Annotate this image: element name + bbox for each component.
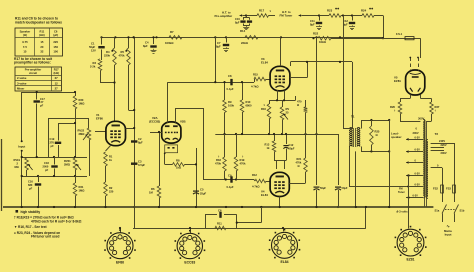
svg-text:Ω: Ω (298, 164, 300, 168)
svg-text:C11: C11 (310, 19, 315, 23)
svg-text:T2: T2 (435, 132, 439, 136)
capacitor C11 (318, 14, 320, 16)
svg-text:470: 470 (297, 100, 302, 104)
svg-text:FS3: FS3 (446, 187, 451, 191)
svg-text:FS2: FS2 (433, 187, 438, 191)
svg-text:6·3V: 6·3V (413, 195, 419, 198)
svg-text:15: 15 (23, 50, 27, 54)
svg-text:RV22: RV22 (78, 129, 85, 133)
svg-text:C6: C6 (218, 209, 222, 213)
wire T1 primary (351, 128, 353, 129)
capacitor C14 electrolytic (335, 186, 341, 188)
svg-text:R21: R21 (79, 185, 84, 189)
resistor R19 (236, 134, 238, 157)
svg-text:100kΩ: 100kΩ (165, 41, 174, 45)
resistor R25 (370, 126, 374, 145)
svg-text:EL84: EL84 (280, 260, 288, 264)
resistor R26 (398, 102, 402, 114)
svg-text:220k: 220k (104, 54, 110, 58)
svg-text:(Ω): (Ω) (23, 33, 27, 37)
resistor R14 (245, 36, 258, 40)
socket ECC83 base (177, 233, 202, 258)
svg-text:150: 150 (53, 45, 58, 49)
svg-text:R17: R17 (259, 9, 265, 13)
left page edge (1, 139, 3, 211)
resistor R17 (257, 14, 269, 18)
capacitor C19 (55, 141, 61, 143)
svg-text:220: 220 (109, 190, 114, 194)
svg-text:3·75: 3·75 (22, 40, 28, 44)
svg-text:FM tuner unit used: FM tuner unit used (31, 235, 60, 239)
socket EL84 base (272, 232, 298, 258)
svg-text:R1: R1 (109, 155, 113, 159)
capacitor C12 (352, 16, 354, 21)
wire T1 secondary top (361, 120, 389, 122)
svg-text:10kΩ: 10kΩ (319, 40, 327, 44)
resistor R5 (128, 37, 130, 48)
svg-text:C7: C7 (217, 41, 221, 45)
resistor R20b (305, 100, 307, 107)
svg-text:R13: R13 (265, 143, 270, 147)
V4 cathode bypass C12e (286, 134, 288, 144)
svg-text:20: 20 (40, 45, 44, 49)
V2 base box (165, 145, 178, 153)
wire coupling top (215, 37, 217, 82)
svg-text:(ECC83): (ECC83) (149, 120, 160, 124)
svg-text:R18: R18 (216, 158, 221, 162)
svg-text:470kΩ each for R out= 6 or 8·8: 470kΩ each for R out= 6 or 8·8kΩ (31, 219, 82, 223)
capacitor C5 (193, 190, 199, 192)
wire V4 cathode (279, 197, 281, 208)
svg-text:EF86: EF86 (96, 117, 103, 121)
table: speaker matching (R11/C6) (15, 28, 63, 56)
svg-text:0·1µF: 0·1µF (227, 87, 234, 91)
capacitor C13 electrolytic (314, 186, 320, 188)
fuse FS2 (441, 185, 444, 193)
resistor R4 (114, 37, 116, 48)
capacitor C9 (230, 176, 232, 182)
svg-text:6·3V: 6·3V (415, 136, 421, 139)
potentiometer RV21 (73, 158, 77, 170)
svg-text:6·3V: 6·3V (415, 184, 421, 187)
svg-text:R12: R12 (252, 173, 257, 177)
capacitor C1 (101, 37, 103, 44)
loudspeaker (389, 120, 391, 151)
resistor R20 (75, 92, 77, 96)
svg-text:2·2k: 2·2k (90, 65, 96, 69)
wire (341, 15, 362, 17)
svg-text:R11: R11 (40, 29, 45, 33)
svg-text:8µF: 8µF (138, 141, 143, 145)
svg-text:R7: R7 (170, 30, 174, 34)
svg-text:ECC83: ECC83 (184, 260, 195, 264)
svg-text:680: 680 (28, 183, 33, 187)
socket stub ECC83 (190, 228, 192, 233)
svg-text:EZ81: EZ81 (406, 258, 414, 262)
switch link (445, 209, 456, 211)
svg-text:Speaker: Speaker (20, 29, 30, 33)
svg-text:220V: 220V (441, 143, 447, 147)
svg-text:R3: R3 (93, 61, 97, 65)
svg-text:R16: R16 (261, 107, 266, 111)
wire T2 HV ends (400, 121, 420, 123)
svg-text:RV19: RV19 (14, 158, 21, 162)
svg-text:T1: T1 (351, 115, 355, 119)
svg-text:6·3V: 6·3V (415, 149, 421, 152)
resistor R6 grid leak (159, 132, 161, 186)
svg-text:pF: pF (40, 103, 44, 107)
resistor R9 (224, 82, 226, 100)
socket EF86 base (107, 233, 133, 259)
svg-text:Input: Input (18, 145, 25, 149)
svg-text:pF: pF (29, 186, 33, 190)
svg-text:C5: C5 (200, 188, 204, 192)
svg-text:R17: R17 (54, 67, 59, 71)
svg-text:V2B: V2B (180, 120, 186, 124)
svg-text:EL84: EL84 (261, 61, 268, 65)
svg-text:EF86: EF86 (116, 260, 124, 264)
wire tone box outer (49, 118, 89, 120)
svg-text:RV21: RV21 (64, 159, 71, 163)
svg-text:240V: 240V (439, 139, 445, 143)
wire V4 anode (289, 183, 305, 185)
potentiometer RV (282, 100, 284, 107)
switch S1b (454, 205, 459, 214)
capacitor C4 (153, 37, 155, 44)
svg-text:EZ81: EZ81 (394, 79, 401, 83)
wire EZ81 anode stubs (410, 58, 412, 62)
svg-text:C19: C19 (50, 137, 55, 141)
wire EZ81 left leg (410, 95, 412, 99)
svg-text:preamplifier as follows:: preamplifier as follows: (14, 61, 51, 65)
notes: component footnotes (16, 210, 19, 213)
resistor R24 (362, 14, 374, 18)
svg-text:27: 27 (55, 76, 59, 80)
svg-text:3-valve: 3-valve (17, 81, 27, 85)
svg-text:1MΩ: 1MΩ (79, 189, 86, 193)
resistor R27 (430, 102, 434, 114)
svg-text:50µF: 50µF (320, 186, 326, 190)
svg-text:C10: C10 (235, 17, 240, 21)
wire T1 center tap (343, 16, 345, 129)
svg-text:50µF: 50µF (289, 147, 295, 151)
svg-text:C16: C16 (28, 180, 33, 184)
svg-text:6·3V: 6·3V (415, 173, 421, 176)
svg-text:R15: R15 (253, 72, 258, 76)
resistor R8 (165, 164, 173, 166)
svg-text:C9: C9 (228, 174, 232, 178)
capacitor C17 (36, 92, 38, 100)
svg-text:R21: R21 (297, 157, 302, 161)
svg-text:C8: C8 (228, 74, 232, 78)
svg-text:100: 100 (53, 50, 58, 54)
svg-text:0·1µF: 0·1µF (227, 185, 234, 189)
svg-text:50µF: 50µF (342, 186, 348, 190)
svg-text:1MΩ: 1MΩ (79, 102, 86, 106)
svg-text:Pre-amplifier: Pre-amplifier (215, 14, 234, 18)
svg-text:MΩ: MΩ (15, 165, 19, 169)
wire (274, 160, 286, 162)
wire to EZ81 socket (408, 198, 410, 229)
svg-text:FM Tuner: FM Tuner (280, 14, 294, 18)
V1 cathode resistors R1 R2 (106, 145, 112, 151)
svg-text:8µF: 8µF (235, 20, 240, 24)
wire V1 screen line (134, 37, 136, 228)
wire (22, 92, 76, 94)
svg-text:470k: 470k (215, 162, 221, 166)
wire heater riser (365, 207, 367, 228)
svg-text:RV: RV (286, 107, 290, 111)
table: preamplifier R17 (15, 67, 62, 91)
svg-text:15: 15 (40, 40, 44, 44)
wire V2 grid (150, 132, 162, 134)
svg-text:4·7kΩ: 4·7kΩ (252, 185, 260, 189)
svg-text:R14: R14 (240, 29, 246, 33)
svg-text:R26: R26 (390, 105, 395, 109)
svg-text:pF: pF (45, 168, 49, 172)
capacitor C3 (131, 162, 137, 164)
capacitor C18 (54, 157, 56, 165)
svg-text:1kΩ: 1kΩ (176, 166, 182, 170)
svg-text:R24: R24 (361, 9, 367, 13)
wire EZ81 right leg (420, 95, 422, 99)
fuse FS3 (453, 185, 456, 193)
svg-text:R10: R10 (246, 100, 251, 104)
wire feedback to chassis (237, 222, 261, 224)
svg-text:25µF: 25µF (200, 191, 207, 195)
svg-text:R11: R11 (217, 222, 222, 226)
svg-text:R8: R8 (176, 159, 180, 163)
svg-text:50µF: 50µF (89, 45, 96, 49)
mains line 2 (454, 143, 456, 202)
wire (355, 151, 357, 207)
socket EZ81 base (397, 229, 424, 256)
svg-text:pF: pF (51, 144, 55, 148)
resistor R10 (242, 82, 244, 100)
svg-text:C3: C3 (138, 160, 142, 164)
svg-text:470k: 470k (119, 54, 125, 58)
svg-text:match loudspeaker as follows: match loudspeaker as follows (15, 20, 62, 24)
resistor R12 (254, 180, 255, 182)
wire cathode bus (215, 134, 338, 136)
capacitor C8 (230, 79, 232, 85)
heater line (133, 228, 366, 230)
resistor R22 (318, 36, 331, 40)
wire V2B anode box (175, 108, 177, 123)
svg-text:270: 270 (50, 141, 55, 145)
resistor R23 (329, 14, 341, 18)
svg-text:speaker: speaker (391, 135, 402, 139)
capacitor C16 (38, 176, 40, 182)
svg-text:R9: R9 (228, 100, 232, 104)
svg-text:12: 12 (55, 81, 59, 85)
svg-text:R20: R20 (79, 98, 84, 102)
svg-text:R23: R23 (327, 9, 333, 13)
resistor R21v (305, 134, 307, 158)
feedback network C6 R11 (205, 215, 207, 228)
svg-text:circuit: circuit (29, 71, 37, 75)
wire screen rail (291, 61, 353, 63)
svg-text:32: 32 (40, 50, 44, 54)
wire long vertical (316, 37, 318, 185)
wire (22, 157, 87, 159)
resistor R18 (224, 134, 226, 157)
chassis ground line (3, 206, 433, 208)
svg-text:▼ R16, R17 - See text: ▼ R16, R17 - See text (14, 225, 48, 229)
resistor R21 (75, 176, 77, 183)
V4 cathode bias R13 (274, 134, 276, 141)
svg-text:12V: 12V (91, 48, 96, 52)
svg-text:2MΩ: 2MΩ (79, 132, 86, 136)
wire T1 secondary bottom (361, 147, 363, 152)
switch S1a (442, 205, 447, 214)
svg-text:2000: 2000 (43, 164, 49, 168)
svg-text:300V: 300V (413, 131, 419, 135)
svg-text:27: 27 (55, 87, 59, 91)
svg-text:22kΩ: 22kΩ (241, 41, 249, 45)
svg-text:0·5µF: 0·5µF (138, 163, 145, 167)
T2 heater taps (406, 139, 409, 141)
mains line 1 (442, 168, 444, 202)
socket stub EL84 (283, 228, 285, 231)
wire V2A anode (167, 82, 169, 123)
wire coupling bottom (203, 179, 254, 181)
svg-text:C2: C2 (138, 137, 142, 141)
svg-text:470k: 470k (296, 161, 302, 165)
wire (196, 148, 198, 207)
wire (89, 140, 91, 176)
wire V3 screen (290, 77, 307, 79)
resistor R7 (169, 36, 182, 40)
svg-text:C18: C18 (44, 161, 49, 165)
svg-text:Pre-amplifier: Pre-amplifier (25, 67, 41, 71)
potentiometer RV22 (87, 128, 91, 140)
svg-text:25: 25 (286, 111, 289, 115)
svg-text:2-valve: 2-valve (17, 76, 27, 80)
svg-text:F.S.1: F.S.1 (396, 32, 403, 36)
svg-text:high stability: high stability (21, 210, 41, 214)
potentiometer RV19 (25, 158, 29, 170)
svg-text:R22: R22 (313, 31, 319, 35)
wire T1 to heater taps (349, 147, 351, 187)
wire (22, 176, 87, 178)
svg-text:C1: C1 (91, 42, 95, 46)
svg-text:Mixer: Mixer (17, 87, 25, 91)
svg-text:R19: R19 (240, 158, 245, 162)
input terminal (21, 92, 23, 141)
svg-text:2MΩ: 2MΩ (64, 163, 71, 167)
fuse FS1 (383, 38, 420, 40)
svg-text:EL84: EL84 (261, 193, 268, 197)
svg-text:R6: R6 (151, 187, 155, 191)
svg-text:7·5: 7·5 (23, 45, 27, 49)
wire (284, 91, 286, 101)
svg-text:(kΩ): (kΩ) (53, 71, 59, 75)
wire (338, 134, 340, 185)
capacitor C7 (226, 37, 228, 42)
svg-text:4·7kΩ: 4·7kΩ (251, 85, 259, 89)
wire EZ81 cathode (420, 38, 422, 58)
svg-text:▼: ▼ (263, 104, 265, 107)
wire (374, 15, 383, 17)
svg-text:S1b: S1b (460, 209, 465, 213)
svg-text:R5: R5 (121, 50, 125, 54)
svg-text:R27: R27 (435, 105, 440, 109)
svg-text:220: 220 (53, 40, 58, 44)
wire V3 anode top (280, 37, 282, 66)
svg-text:Input: Input (445, 232, 452, 236)
wire (269, 100, 296, 102)
resistor R16 (269, 100, 271, 104)
wire (352, 62, 354, 129)
resistor R15 (254, 79, 256, 82)
svg-text:R4: R4 (106, 50, 110, 54)
svg-text:C12: C12 (289, 143, 294, 147)
svg-text:S1a: S1a (435, 209, 440, 213)
capacitor C2 (131, 140, 137, 142)
svg-text:R25: R25 (375, 130, 380, 134)
wire V1 grid (95, 131, 106, 133)
svg-text:C6: C6 (54, 29, 58, 33)
resistor R3 (98, 59, 102, 71)
svg-text:Tuner: Tuner (398, 191, 405, 194)
svg-text:8µF: 8µF (310, 23, 315, 27)
wire tone box inner (58, 123, 75, 125)
svg-text:▼: ▼ (269, 10, 271, 13)
svg-text:100k: 100k (228, 104, 234, 108)
svg-text:(µF): (µF) (53, 33, 58, 37)
svg-text:200V: 200V (441, 151, 447, 155)
svg-text:(kΩ): (kΩ) (39, 33, 45, 37)
svg-text:R2: R2 (109, 186, 113, 190)
socket stub EF86 (120, 228, 122, 233)
svg-text:6800: 6800 (246, 104, 252, 108)
svg-text:8µF: 8µF (216, 45, 221, 49)
wire speaker ground (389, 151, 391, 207)
svg-text:8µF: 8µF (143, 44, 148, 48)
svg-text:C4: C4 (145, 41, 149, 45)
capacitor C10 (245, 14, 247, 16)
T2 taps right (431, 143, 454, 145)
svg-text:470k: 470k (240, 162, 246, 166)
wire HT rail 2 (102, 37, 384, 39)
